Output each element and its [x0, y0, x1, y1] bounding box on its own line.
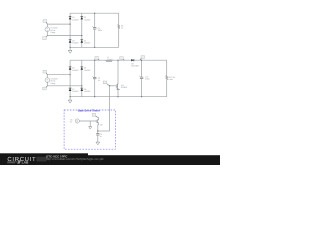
wire AC input 2 row1 — [47, 35, 82, 37]
resistor R1 — [118, 13, 124, 47]
diode D5 — [69, 67, 79, 72]
capacitor C2 input filter — [92, 60, 100, 96]
annotation dashed box — [64, 110, 115, 149]
svg-text:1k: 1k — [121, 27, 123, 30]
node flag row2 top input — [43, 70, 47, 75]
ground row2 — [68, 97, 72, 103]
node flag row2 bottom input — [43, 86, 48, 90]
diode D7 — [69, 88, 79, 93]
node flag rail B row2 — [120, 57, 125, 61]
voltage source V1 — [45, 24, 58, 35]
node flag rail C row2 — [140, 56, 144, 61]
node flag M2 drain — [92, 113, 98, 117]
svg-text:1N4007: 1N4007 — [84, 90, 91, 93]
wire bridge branch A row1 — [69, 13, 71, 47]
wire V3 to gate — [79, 120, 96, 122]
inductor L1 — [106, 56, 113, 61]
node flag rail A row2 — [95, 57, 99, 61]
svg-text:1N4007: 1N4007 — [72, 90, 79, 93]
diode D4 — [81, 40, 91, 45]
svg-text:1N4007: 1N4007 — [72, 18, 79, 21]
node flag row1 bottom input — [43, 36, 48, 40]
svg-text:IRF840: IRF840 — [121, 86, 127, 89]
wire bridge branch A row2 — [69, 60, 71, 96]
svg-text:1n: 1n — [100, 135, 102, 138]
svg-text:http://circuitlab.com/c/7fsr5j: http://circuitlab.com/c/7fsr5jWe5/gtc-vc… — [46, 157, 104, 161]
watermark bar strip — [0, 155, 220, 165]
ground C4 — [96, 142, 100, 145]
node flag row1 top input — [43, 20, 47, 25]
ground V3 return — [89, 121, 92, 129]
diode D1 — [69, 16, 79, 21]
diode D8 — [81, 88, 91, 93]
svg-text:1N4007: 1N4007 — [84, 42, 91, 45]
voltage source V2 — [45, 75, 58, 86]
transistor M2 NMOS — [96, 118, 102, 127]
wire top rail row2 — [70, 59, 167, 61]
svg-text:0 deg: 0 deg — [50, 82, 55, 85]
ground row1 — [68, 47, 72, 53]
svg-text:1N4007: 1N4007 — [84, 18, 91, 21]
wire M1 gate — [110, 85, 117, 87]
diode D6 — [81, 67, 91, 72]
capacitor C1 — [92, 13, 102, 47]
diode D9 boost diode — [131, 59, 138, 67]
wire M2 source chain — [97, 125, 100, 131]
wire gate drive riser — [109, 86, 111, 131]
svg-text:MUR460: MUR460 — [131, 64, 138, 67]
diode D3 — [69, 40, 79, 45]
svg-text:100u: 100u — [145, 78, 149, 81]
svg-text:1u: 1u — [98, 79, 100, 82]
wire bottom rail row2 — [70, 96, 167, 98]
logo badge — [36, 157, 46, 162]
svg-text:Gate Drive Tester: Gate Drive Tester — [78, 109, 100, 112]
wire bottom rail row1 — [70, 46, 119, 48]
wire AC input 1 row2 — [47, 74, 70, 76]
wire AC input 2 row2 — [47, 85, 82, 87]
wire top rail row1 — [70, 12, 119, 14]
watermark logo box — [0, 153, 88, 165]
capacitor C4 — [96, 131, 102, 142]
wire gate drive link — [98, 130, 110, 132]
svg-text:0 deg: 0 deg — [50, 31, 55, 34]
svg-text:M2: M2 — [100, 124, 103, 127]
diode D2 — [81, 16, 91, 21]
logo LAB — [7, 160, 29, 164]
capacitor C3 output — [139, 60, 150, 96]
junction dot gate link — [97, 130, 98, 131]
transistor M1 NMOS — [116, 60, 127, 96]
svg-text:1N4007: 1N4007 — [84, 69, 91, 72]
svg-text:220u: 220u — [98, 29, 102, 32]
svg-text:Load: Load — [168, 78, 172, 81]
svg-text:LAB: LAB — [22, 160, 29, 164]
svg-text:2.5mH: 2.5mH — [107, 58, 113, 61]
voltage source V3 — [70, 119, 79, 124]
resistor R2 load — [166, 60, 175, 96]
svg-text:1N4007: 1N4007 — [72, 69, 79, 72]
wire bridge branch B row1 — [81, 13, 83, 47]
wire bridge branch B row2 — [81, 60, 83, 96]
svg-text:1N4007: 1N4007 — [72, 42, 79, 45]
node flag M1 gate — [103, 81, 109, 86]
wire AC input 1 row1 — [47, 23, 70, 25]
junction dots row2 — [70, 60, 143, 98]
junction dots row1 — [70, 13, 96, 48]
